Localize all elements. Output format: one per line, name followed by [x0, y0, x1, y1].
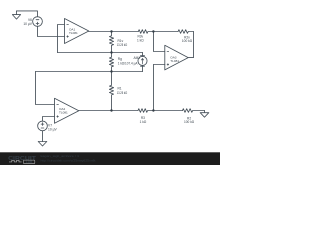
junction OA3 inverting input node — [152, 30, 154, 32]
wire V7 to OA2 non-inverting input — [43, 117, 55, 122]
resistor R3v — [138, 30, 153, 34]
wire rail to R2 — [154, 110, 183, 112]
svg-text:13.25 kΩ: 13.25 kΩ — [117, 91, 128, 95]
resistor Rg — [109, 53, 113, 72]
voltage source V6 — [33, 17, 43, 27]
svg-text:TL081: TL081 — [170, 59, 179, 63]
junction node D (R1 bottom / OA2 output rail) — [110, 109, 112, 111]
wire node B — [58, 52, 143, 54]
op-amp signs OA1 — [67, 24, 69, 26]
wire V7 to ground — [42, 131, 44, 142]
op-amp OA2 — [55, 98, 79, 123]
svg-text:10 µV: 10 µV — [23, 22, 32, 26]
ground bottom-right — [200, 111, 209, 118]
wire to OA3 inverting input — [154, 32, 165, 52]
svg-text:AM1: AM1 — [133, 56, 140, 60]
svg-text:http://circuitlab.com/c/25nwg6: http://circuitlab.com/c/25nwg625xn8t — [41, 159, 96, 163]
resistor R3 — [138, 109, 154, 113]
junction OA3 non-inverting input node — [152, 109, 154, 111]
ground top-left — [12, 11, 20, 19]
op-amp OA1 — [65, 19, 89, 44]
wire R2v to OA3 output — [188, 32, 193, 58]
svg-text:1 kΩ: 1 kΩ — [140, 120, 147, 124]
wire bottom rail — [79, 110, 138, 112]
wire OA1 output to R3v — [89, 31, 139, 33]
ammeter AM1 — [138, 53, 147, 72]
wire V6 to OA1 non-inverting input — [38, 26, 65, 36]
svg-text:TL081: TL081 — [59, 111, 68, 115]
resistor R2 — [183, 109, 205, 113]
svg-text:LAB: LAB — [26, 160, 33, 164]
junction node C (Rg / R1 / OA2 feedback / ammeter) — [110, 70, 112, 72]
watermark bar — [0, 152, 220, 165]
voltage source V7 — [38, 121, 48, 131]
junction node B (R1v / Rg / OA1 feedback / ammeter) — [110, 51, 112, 53]
svg-text:13.25 kΩ: 13.25 kΩ — [117, 43, 128, 47]
wire OA1 inverting input feedback — [58, 25, 65, 53]
resistor R1v — [109, 32, 113, 53]
ground below V7 — [38, 142, 47, 147]
wire OA2 feedback — [36, 72, 55, 105]
wire node to R2v — [154, 31, 179, 33]
svg-text:kagan_sigit_ambore / 1: kagan_sigit_ambore / 1 — [41, 154, 80, 158]
svg-text:100 kΩ: 100 kΩ — [184, 120, 195, 124]
resistor R2v — [178, 30, 193, 34]
op-amp signs OA3 — [167, 51, 169, 53]
svg-text:10 µV: 10 µV — [48, 128, 57, 132]
wire OA3 non-inverting input — [154, 64, 165, 66]
svg-text:CIRCUIT: CIRCUIT — [8, 156, 37, 162]
svg-text:TL081: TL081 — [69, 31, 78, 35]
op-amp OA3 — [165, 45, 188, 70]
svg-text:1 kΩ/107.4 µA: 1 kΩ/107.4 µA — [118, 61, 138, 65]
svg-text:100 kΩ: 100 kΩ — [182, 39, 193, 43]
logo waveform — [9, 160, 22, 162]
resistor R1 — [109, 72, 113, 111]
logo LAB — [23, 160, 34, 164]
svg-text:1 kΩ: 1 kΩ — [137, 39, 144, 43]
wire node C — [36, 71, 143, 73]
wire ground to V6 top — [17, 11, 38, 17]
wire riser to bottom rail — [153, 65, 155, 111]
junction node A (OA1 output / R1v top) — [110, 30, 112, 32]
op-amp signs OA2 — [57, 104, 59, 106]
